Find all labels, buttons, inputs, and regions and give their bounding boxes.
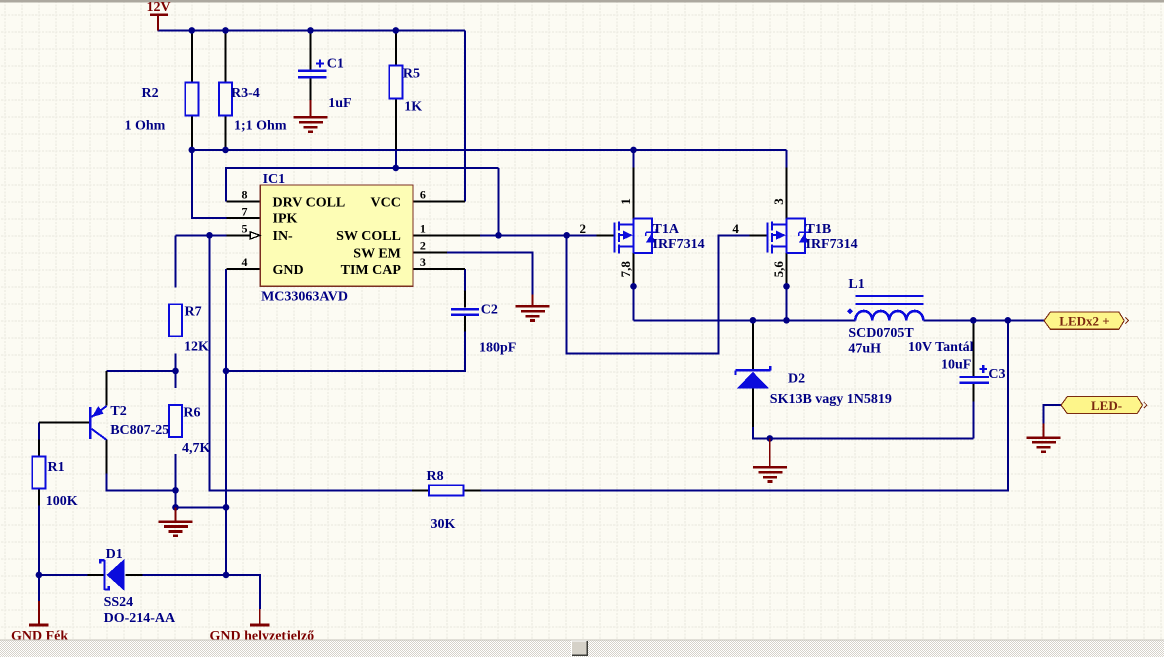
wire T2 emitter to divider bbox=[106, 370, 175, 372]
pin C1 bottom bbox=[309, 78, 311, 100]
pin T1A source bbox=[632, 253, 634, 287]
svg-text:5,6: 5,6 bbox=[771, 261, 786, 278]
pin T1A drain bbox=[632, 168, 634, 219]
wire T2 collector down bbox=[106, 474, 175, 491]
svg-text:7,8: 7,8 bbox=[618, 261, 633, 278]
wire T1A source down bbox=[633, 286, 635, 320]
wire T1B drain top bbox=[786, 150, 788, 168]
pin R2 bottom bbox=[191, 116, 193, 150]
wire 12V down to VCC pin6 bbox=[464, 30, 466, 201]
wire 12V rail top bbox=[158, 29, 465, 31]
svg-text:DO-214-AA: DO-214-AA bbox=[104, 611, 176, 626]
pin T2 collector bbox=[105, 440, 107, 474]
svg-text:1 Ohm: 1 Ohm bbox=[125, 119, 166, 134]
svg-text:DRV COLL: DRV COLL bbox=[273, 195, 346, 210]
svg-text:5: 5 bbox=[242, 222, 248, 236]
wire output rail right bbox=[923, 319, 1044, 321]
svg-text:4,7K: 4,7K bbox=[182, 441, 211, 456]
junction ground left bbox=[172, 504, 179, 511]
junction rail 12V / R5 bbox=[393, 27, 400, 34]
junction ground / GND net bbox=[223, 504, 230, 511]
pin C3 top bbox=[972, 322, 974, 376]
svg-text:LED-: LED- bbox=[1091, 398, 1122, 413]
resistor R8 bbox=[429, 485, 463, 495]
diode D2 SK13B (schottky, cathode up) bbox=[736, 366, 771, 388]
svg-text:TIM CAP: TIM CAP bbox=[341, 263, 402, 278]
svg-text:4: 4 bbox=[732, 221, 739, 236]
svg-text:SS24: SS24 bbox=[104, 595, 134, 610]
svg-text:R3-4: R3-4 bbox=[231, 86, 260, 101]
svg-text:C3: C3 bbox=[988, 367, 1005, 382]
pin IC1 p4 bbox=[226, 268, 260, 270]
svg-text:R6: R6 bbox=[183, 405, 200, 420]
transistor Q-T1A IRF7314 bbox=[614, 218, 656, 253]
svg-text:SW EM: SW EM bbox=[353, 247, 401, 262]
wire C2 bottom return bbox=[226, 331, 465, 371]
junction bottom rail ground bbox=[767, 435, 774, 442]
svg-text:SW COLL: SW COLL bbox=[336, 229, 401, 244]
IC1 input triangle pin5 bbox=[250, 232, 260, 239]
junction IN- / feedback bbox=[206, 232, 213, 239]
power port GND helyzetjelzo bbox=[250, 609, 269, 625]
port LED- bbox=[1061, 397, 1147, 414]
pin IC1 p7 bbox=[226, 217, 260, 219]
pin R8 left bbox=[412, 489, 429, 491]
svg-text:R7: R7 bbox=[185, 305, 202, 320]
pin C2 bottom bbox=[464, 316, 466, 331]
wire GND net vertical bbox=[225, 269, 227, 575]
svg-text:8: 8 bbox=[242, 188, 248, 202]
wire LED- port to ground bbox=[1044, 405, 1062, 424]
svg-text:10uF: 10uF bbox=[941, 357, 971, 372]
svg-text:LEDx2 +: LEDx2 + bbox=[1059, 314, 1109, 329]
pin R1 top bbox=[38, 439, 40, 456]
svg-text:R2: R2 bbox=[142, 86, 159, 101]
wire node to R6 top bbox=[175, 371, 177, 388]
pin T2 base bbox=[39, 421, 90, 423]
pin T1B drain bbox=[785, 168, 787, 219]
wire rail2 y150 to T1B drain bbox=[192, 149, 787, 151]
pin IC1 p2 bbox=[413, 251, 447, 253]
svg-text:1: 1 bbox=[420, 222, 426, 236]
svg-text:IC1: IC1 bbox=[263, 172, 286, 187]
scrollbar thumb bbox=[571, 641, 588, 657]
pin T1B gate bbox=[749, 234, 766, 236]
IC op-amp/controller U1 IC1 MC33063AVD body bbox=[260, 185, 413, 286]
pin R1 bottom bbox=[38, 489, 40, 506]
svg-text:D1: D1 bbox=[106, 547, 123, 562]
pin C1 top bbox=[309, 31, 311, 69]
svg-text:T1B: T1B bbox=[806, 222, 832, 237]
svg-text:12V: 12V bbox=[147, 0, 171, 15]
pin D1 left bbox=[88, 574, 105, 576]
pin R3-4 bottom bbox=[224, 116, 226, 150]
junction SWCOLL / DRVCOLL bbox=[495, 232, 502, 239]
svg-text:T2: T2 bbox=[110, 404, 126, 419]
pin IC1 p5 bbox=[226, 234, 250, 236]
power port GND Fék bbox=[29, 601, 48, 625]
svg-text:6: 6 bbox=[420, 188, 426, 202]
svg-text:1;1 Ohm: 1;1 Ohm bbox=[234, 119, 287, 134]
wire TIM CAP pin3 to C2 bbox=[464, 269, 466, 291]
wire DRVCOLL down to SWCOLL bbox=[498, 168, 500, 235]
wire IN- down to R7 bbox=[175, 235, 177, 287]
wire feedback IN- down bbox=[210, 235, 413, 490]
junction GND net / C2 return bbox=[223, 368, 230, 375]
svg-text:R8: R8 bbox=[427, 469, 444, 484]
wire C3 bottom bbox=[972, 402, 974, 439]
junction R5 / DRVCOLL net bbox=[393, 165, 400, 172]
resistor R5 bbox=[389, 66, 402, 99]
ground symbol (LED-) bbox=[1027, 424, 1061, 452]
svg-text:SCD0705T: SCD0705T bbox=[848, 326, 914, 341]
wire D1 right to GND port bbox=[143, 575, 260, 609]
resistor R6 bbox=[169, 405, 182, 437]
svg-text:IRF7314: IRF7314 bbox=[653, 237, 705, 252]
junction divider node bbox=[172, 368, 179, 375]
pin IC1 p3 bbox=[413, 268, 465, 270]
capacitor C2 bbox=[451, 309, 479, 315]
svg-text:IPK: IPK bbox=[273, 212, 298, 227]
junction rail 12V / R3-4 bbox=[222, 27, 229, 34]
svg-text:180pF: 180pF bbox=[479, 340, 516, 355]
junction output / C3 bbox=[970, 317, 977, 324]
capacitor C1 bbox=[298, 59, 327, 77]
wire gate loop down bbox=[567, 235, 750, 353]
wire R8 right to output bbox=[480, 320, 1007, 490]
pin R2 top bbox=[191, 31, 193, 82]
wire DRV COLL loop y168 bbox=[226, 168, 499, 201]
junction R1 / D1 bbox=[36, 572, 43, 579]
svg-text:IRF7314: IRF7314 bbox=[806, 237, 858, 252]
junction output / feedback bbox=[1005, 317, 1012, 324]
svg-text:D2: D2 bbox=[788, 372, 805, 387]
junction rail 12V / R2 bbox=[189, 27, 196, 34]
wire D1 left bbox=[39, 574, 88, 576]
junction rail2 / R2 bbox=[189, 147, 196, 154]
wire R2 down to IPK pin7 bbox=[192, 150, 227, 218]
pin R5 top bbox=[395, 31, 397, 65]
wire R1 top from base bbox=[38, 422, 40, 439]
svg-text:GND: GND bbox=[273, 263, 304, 278]
port LEDx2 + bbox=[1044, 312, 1129, 329]
junction T1A source bbox=[630, 283, 637, 290]
pin D1 right bbox=[126, 574, 143, 576]
svg-text:MC33063AVD: MC33063AVD bbox=[261, 290, 348, 305]
ground symbol (R6/GND) bbox=[159, 507, 193, 536]
svg-text:R5: R5 bbox=[403, 67, 420, 82]
svg-text:1K: 1K bbox=[404, 99, 422, 114]
svg-text:1uF: 1uF bbox=[328, 96, 351, 111]
junction T1B source bbox=[783, 283, 790, 290]
svg-text:4: 4 bbox=[242, 255, 248, 269]
junction output / T1B source bbox=[783, 317, 790, 324]
resistor R2 bbox=[185, 83, 198, 116]
svg-text:30K: 30K bbox=[431, 517, 456, 532]
junction R6 bottom / collector bbox=[172, 487, 179, 494]
ground symbol (bottom rail) bbox=[753, 438, 787, 481]
wire T1B source down bbox=[786, 286, 788, 320]
junction rail2 / R3-4 bbox=[222, 147, 229, 154]
transistor Q-T1B IRF7314 bbox=[767, 218, 809, 253]
svg-text:3: 3 bbox=[420, 255, 426, 269]
resistor R7 bbox=[169, 304, 182, 336]
transistor Q2 T2 BC807 (PNP) bbox=[90, 406, 106, 440]
svg-text:IN-: IN- bbox=[273, 229, 294, 244]
svg-text:VCC: VCC bbox=[371, 195, 401, 210]
svg-text:2: 2 bbox=[420, 239, 426, 253]
pin R8 right bbox=[463, 489, 480, 491]
svg-text:C1: C1 bbox=[327, 57, 344, 72]
wire SW COLL pin1 to gates bbox=[480, 234, 596, 236]
svg-text:BC807-25: BC807-25 bbox=[110, 423, 169, 438]
pin T1B source bbox=[785, 253, 787, 287]
ground symbol (C1) bbox=[294, 100, 328, 132]
ground symbol (SW EM) bbox=[516, 294, 550, 320]
diode D1 SS24 (schottky, cathode left) bbox=[100, 559, 124, 591]
inductor L1 SCD0705T bbox=[855, 296, 923, 320]
capacitor C3 bbox=[959, 365, 989, 383]
pin D2 top bbox=[752, 321, 754, 370]
svg-text:R1: R1 bbox=[48, 460, 65, 475]
junction rail 12V / C1 bbox=[307, 27, 314, 34]
pin T1A gate bbox=[596, 234, 613, 236]
wire R5 bottom to DRVCOLL net bbox=[395, 116, 397, 168]
svg-text:100K: 100K bbox=[46, 494, 78, 509]
junction D1 / GND net bbox=[223, 572, 230, 579]
scrollbar track bbox=[0, 640, 1164, 657]
resistor R1 bbox=[32, 456, 45, 488]
svg-text:2: 2 bbox=[580, 221, 587, 236]
svg-text:12K: 12K bbox=[184, 340, 209, 355]
pin IC1 p1 bbox=[413, 234, 480, 236]
pin IC1 p8 bbox=[226, 200, 260, 202]
wire T1A drain top bbox=[633, 150, 635, 168]
svg-text:SK13B vagy 1N5819: SK13B vagy 1N5819 bbox=[770, 392, 892, 407]
wire R1 bottom bbox=[38, 506, 40, 575]
svg-text:L1: L1 bbox=[848, 277, 864, 292]
wire R7 bottom to node bbox=[175, 353, 177, 371]
svg-text:3: 3 bbox=[771, 198, 786, 205]
junction output / D2 bbox=[750, 317, 757, 324]
power port 12V bbox=[150, 15, 168, 31]
pin D2 bottom bbox=[752, 388, 754, 427]
wire R6 bottom to ground bbox=[175, 454, 177, 507]
inductor L1 polarity dot bbox=[847, 308, 853, 314]
wire D2 bottom rail bbox=[753, 427, 973, 438]
pin R5 bottom bbox=[395, 99, 397, 150]
svg-text:7: 7 bbox=[242, 204, 248, 218]
wire output rail left bbox=[634, 319, 856, 321]
junction rail2 / T1A drain bbox=[630, 147, 637, 154]
pin C2 top bbox=[464, 290, 466, 307]
svg-text:C2: C2 bbox=[481, 303, 498, 318]
wire SW EM pin2 to ground bbox=[447, 252, 533, 294]
pin IC1 p6 bbox=[413, 200, 465, 202]
resistor R3-4 bbox=[219, 83, 232, 116]
svg-text:10V Tantál: 10V Tantál bbox=[908, 340, 974, 355]
svg-text:47uH: 47uH bbox=[848, 341, 881, 356]
wire ground link y507 bbox=[176, 506, 227, 508]
pin C3 bottom bbox=[972, 384, 974, 402]
junction SWCOLL / gate loop bbox=[563, 232, 570, 239]
pin T2 emitter bbox=[105, 371, 107, 405]
svg-text:1: 1 bbox=[618, 198, 633, 205]
svg-text:T1A: T1A bbox=[653, 222, 680, 237]
wire IN- pin5 left bbox=[176, 234, 227, 236]
pin R3-4 top bbox=[224, 31, 226, 82]
